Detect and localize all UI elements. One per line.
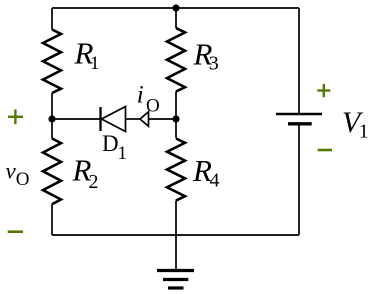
- wire bottom rail: [52, 234, 299, 236]
- wire left lower stub: [51, 119, 53, 139]
- wire left mid stub: [51, 93, 53, 119]
- resistor R4: [167, 139, 185, 201]
- svg-text:1: 1: [118, 143, 128, 164]
- wire left top stub: [51, 8, 53, 30]
- wire arrow to node: [149, 118, 177, 120]
- node top junction: [172, 4, 179, 11]
- wire top rail: [52, 7, 299, 9]
- diode D1: [101, 107, 126, 132]
- wire middle top stub: [175, 8, 177, 28]
- svg-text:1: 1: [90, 53, 100, 74]
- svg-text:2: 2: [89, 171, 99, 193]
- plus sign vO: [8, 109, 23, 124]
- minus sign V1: [318, 149, 332, 152]
- wire left bottom stub: [51, 204, 53, 235]
- plus sign V1: [317, 84, 330, 97]
- node middle: [172, 115, 179, 122]
- wire middle mid stub: [175, 92, 177, 120]
- minus sign vO: [8, 230, 23, 233]
- resistor R2: [43, 139, 61, 205]
- wire middle lower stub: [175, 119, 177, 138]
- wire ground stem: [175, 235, 177, 271]
- battery V1: [276, 114, 322, 124]
- svg-text:O: O: [146, 95, 160, 116]
- svg-text:O: O: [16, 169, 30, 190]
- ground: [157, 271, 194, 289]
- resistor R3: [167, 28, 185, 92]
- wire diode to arrow: [126, 118, 141, 120]
- svg-text:4: 4: [210, 170, 220, 192]
- wire right bottom: [298, 124, 300, 235]
- node left output: [48, 115, 55, 122]
- wire output node to diode: [52, 118, 101, 120]
- svg-text:3: 3: [209, 53, 219, 75]
- svg-text:D: D: [102, 131, 119, 156]
- svg-text:i: i: [137, 82, 144, 109]
- current arrow iO: [140, 112, 149, 127]
- resistor R1: [43, 30, 61, 94]
- wire right top: [298, 8, 300, 114]
- wire middle bottom stub: [175, 201, 177, 235]
- svg-text:1: 1: [359, 121, 368, 143]
